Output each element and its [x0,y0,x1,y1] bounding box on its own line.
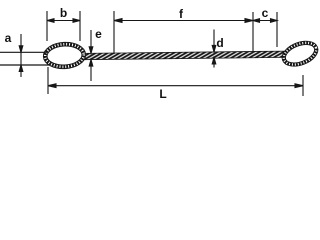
svg-text:b: b [60,6,67,20]
svg-text:d: d [216,36,223,50]
svg-text:a: a [5,31,12,45]
svg-text:f: f [179,7,184,21]
svg-text:c: c [262,6,269,20]
svg-text:e: e [95,27,102,41]
svg-text:L: L [159,87,166,101]
